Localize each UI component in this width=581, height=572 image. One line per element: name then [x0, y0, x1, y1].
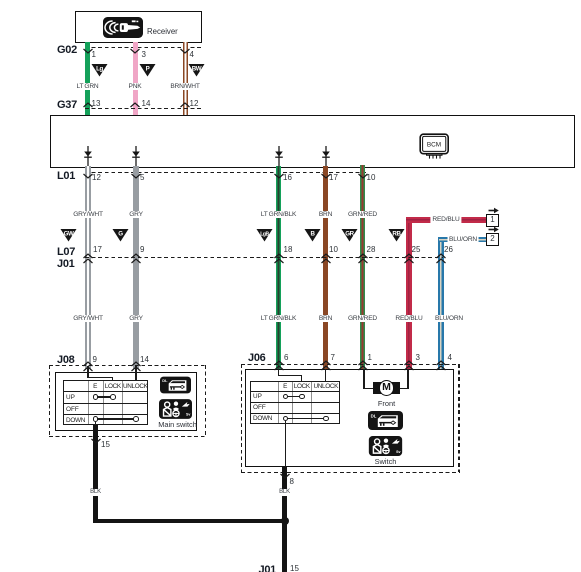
- J06 row label UP: [253, 393, 262, 400]
- wire code triangle G: [112, 228, 129, 242]
- door lock icon J06: [368, 411, 403, 430]
- wire GRY (L01-5 to J08-14): [133, 166, 139, 369]
- J08 DOWN contact UNLOCK circle: [133, 416, 139, 422]
- BCM module box: [50, 115, 575, 168]
- svg-text:Sv: Sv: [186, 412, 190, 416]
- L07 pin 17: [93, 246, 102, 255]
- G02 pin 3: [142, 51, 146, 60]
- wire code triangle Lg: [91, 63, 108, 77]
- svg-text:Sv: Sv: [396, 449, 400, 453]
- connector J01 label (pass-through): [57, 258, 74, 270]
- wire label LT GRN/BLK upper: [260, 211, 297, 218]
- wire code triangle GR: [341, 228, 358, 242]
- svg-text:LgB: LgB: [260, 232, 269, 238]
- L01 pin 12: [92, 174, 101, 183]
- L07 pin 10: [329, 246, 338, 255]
- J08 switch table frame: [63, 380, 148, 425]
- connector L01 dashed line: [85, 172, 368, 173]
- L07 pin 18: [284, 246, 293, 255]
- J08 pin 9: [93, 356, 97, 365]
- J08 table row lines: [64, 391, 147, 392]
- off-page terminal 2 arrow: [488, 226, 499, 233]
- wire label GRY lower: [128, 315, 144, 322]
- connector L07 label: [57, 246, 75, 258]
- J06 ground exit chevron: [280, 473, 290, 479]
- Front label: [378, 400, 395, 408]
- wire label BRN lower: [318, 315, 333, 322]
- connector J06 label: [248, 352, 265, 364]
- J06 entry chevrons: [274, 360, 284, 371]
- L07 pin 25: [412, 246, 421, 255]
- window motor feed line left (pin1): [363, 369, 364, 389]
- G02 pin 1: [92, 51, 96, 60]
- G37 pin 13: [92, 100, 101, 109]
- L07 pass-through chevrons: [83, 253, 93, 264]
- wire code triangle P: [139, 63, 156, 77]
- wire label LT GRN: [75, 83, 100, 90]
- connector L01 label: [57, 170, 75, 182]
- wire label LT GRN/BLK lower: [260, 315, 297, 322]
- off-page terminal 1 box: [486, 214, 499, 227]
- receiver key-fob icon: [103, 17, 143, 38]
- J06 output line from E column to pin 8: [285, 421, 286, 467]
- svg-text:G: G: [118, 231, 123, 238]
- J06 table row lines: [251, 391, 339, 392]
- wire code triangle GW: [60, 228, 77, 242]
- J08 DOWN contact line: [95, 418, 136, 419]
- J06 pin 6: [284, 354, 288, 363]
- G02 entry chevrons: [83, 48, 93, 54]
- front door switch dashed box J06: [241, 364, 459, 365]
- wire BLK from J06 pin8: [282, 467, 287, 572]
- Switch label: [375, 458, 397, 466]
- wire label BRN/WHT: [169, 83, 201, 90]
- J08 row label DOWN: [66, 417, 85, 424]
- wire BRN (L01-17 to J06-7): [323, 166, 328, 369]
- J06 table column lines: [278, 382, 279, 424]
- G37 pin 14: [142, 100, 151, 109]
- J08 table column lines: [88, 381, 89, 424]
- J06 row label DOWN: [253, 415, 272, 422]
- wire label BLK right: [278, 489, 291, 497]
- wire LT GRN (receiver pin1 to BCM): [85, 42, 90, 115]
- BCM internal driver diode 2: [131, 146, 141, 169]
- BCM internal driver diode 1: [83, 146, 93, 169]
- J08 ground exit chevron: [91, 438, 101, 444]
- J06 pin 1: [368, 354, 372, 363]
- wire label BRN upper: [318, 211, 333, 218]
- wire label PNK: [127, 83, 143, 90]
- BCM icon: [419, 133, 450, 160]
- J01 pin 15 label: [290, 565, 299, 572]
- J08 row label UP: [66, 394, 75, 401]
- svg-text:DL: DL: [162, 378, 168, 383]
- wire GRN/RED (L01-10 to J06-1): [360, 165, 365, 369]
- wire label GRY/WHT upper: [72, 211, 104, 218]
- L01 pin 17: [329, 174, 338, 183]
- off-page terminal 1 arrow: [488, 207, 499, 214]
- Main switch label: [158, 421, 197, 429]
- wire BLU/ORN horizontal to terminal 2: [439, 237, 487, 242]
- door lock icon J08: [160, 376, 191, 394]
- wire label GRY/WHT lower: [72, 315, 104, 322]
- J08 entry line pin9 to LOCK column: [87, 366, 88, 378]
- J08 table header UNLOCK: [123, 383, 148, 390]
- BCM internal driver diode 4: [321, 146, 331, 169]
- svg-text:BCM: BCM: [427, 142, 441, 149]
- J06 switch table frame: [250, 381, 340, 425]
- J06 UP contact E circle: [283, 394, 289, 400]
- wire RED/BLU vertical (to J06-3): [406, 217, 412, 369]
- window motor feed line right (pin3): [407, 369, 408, 389]
- wire label RED/BLU on horizontal: [430, 216, 461, 223]
- wire label BLU/ORN lower: [434, 315, 464, 322]
- J08 pin 15 label: [101, 441, 110, 450]
- J06 pin 8 label: [290, 478, 294, 487]
- wire BLK from J08 pin15: [93, 425, 98, 520]
- J06 DOWN contact UNLOCK circle: [323, 416, 329, 422]
- G37 entry chevrons: [83, 102, 93, 108]
- J08 output line from E column: [95, 422, 96, 426]
- wire label GRY upper: [128, 211, 144, 218]
- J06 pin 3: [416, 354, 420, 363]
- power window switch icon J06: [368, 436, 403, 456]
- J06 pin 7: [331, 354, 335, 363]
- Receiver label: [147, 28, 178, 37]
- J08 table header E: [93, 383, 97, 390]
- connector J08 label: [57, 354, 74, 366]
- J08 table header LOCK: [105, 383, 121, 390]
- L01 entry chevrons: [83, 173, 93, 179]
- J06 UP contact line: [285, 396, 302, 397]
- wire GRY/WHT (L01-12 to J08-9): [85, 166, 91, 369]
- wire BRN/WHT (receiver pin4 to BCM): [183, 42, 188, 115]
- connector G37 dashed line: [85, 108, 202, 109]
- L01 pin 16: [283, 174, 292, 183]
- J06 entry line pin7 to UNLOCK column: [325, 369, 326, 381]
- J06 row label OFF: [253, 404, 266, 411]
- main switch dashed box J08: [49, 365, 205, 366]
- J06 UP contact LOCK circle: [299, 394, 305, 400]
- J06 table header LOCK: [294, 383, 310, 390]
- connector G02 dashed line: [85, 47, 202, 48]
- connector L07/J01 dashed line: [85, 257, 443, 258]
- L01 pin 5: [140, 174, 144, 183]
- L07 pin 28: [367, 246, 376, 255]
- wire label RED/BLU lower: [394, 315, 423, 322]
- J08 DOWN contact E circle: [93, 416, 99, 422]
- window motor M (front): [373, 382, 400, 395]
- BCM internal driver diode 3: [274, 146, 284, 169]
- J06 DOWN contact E circle: [283, 416, 289, 422]
- J08 UP contact E circle: [93, 394, 99, 400]
- J08 entry chevrons: [83, 361, 93, 372]
- svg-text:GR: GR: [345, 231, 354, 238]
- G37 pin 12: [190, 100, 199, 109]
- wire label GRN/RED upper: [347, 211, 378, 218]
- svg-text:Lg: Lg: [96, 65, 103, 72]
- wire label GRN/RED lower: [347, 315, 378, 322]
- svg-text:RB: RB: [392, 231, 401, 238]
- wire code triangle B: [304, 228, 321, 242]
- power window main switch icon J08: [159, 399, 192, 419]
- connector G37 label: [57, 99, 77, 111]
- J08 UP contact LOCK circle: [110, 394, 116, 400]
- J06 table header E: [283, 383, 287, 390]
- G02 pin 4: [190, 51, 194, 60]
- front door switch solid box: [245, 369, 454, 468]
- ground bus junction dot: [281, 517, 289, 525]
- connector J01 label bottom: [259, 564, 276, 572]
- svg-text:BW: BW: [192, 65, 202, 72]
- wire code triangle BW: [188, 63, 205, 77]
- wire RED/BLU horizontal to terminal 1: [406, 217, 486, 223]
- svg-text:GW: GW: [63, 231, 73, 238]
- wire LT GRN/BLK (L01-16 to J06-6): [276, 166, 281, 369]
- wire label BLU/ORN on horizontal: [448, 236, 479, 243]
- J08 row label OFF: [66, 406, 79, 413]
- L01 pin 10: [367, 174, 376, 183]
- wire label BLK left: [89, 489, 102, 497]
- wire code triangle RB: [388, 228, 405, 242]
- keyless entry receiver box: [75, 11, 202, 43]
- wire PNK (receiver pin3 to BCM): [133, 42, 138, 115]
- svg-text:P: P: [146, 65, 150, 72]
- wire code triangle LgB: [256, 228, 273, 242]
- L07 pin 9: [140, 246, 144, 255]
- L07 pin 26: [444, 246, 453, 255]
- J06 pin 4: [448, 354, 452, 363]
- J08 pin 14: [140, 356, 149, 365]
- J06 DOWN contact line: [285, 418, 326, 419]
- BLK ground bus horizontal: [93, 519, 287, 524]
- J06 table header UNLOCK: [314, 383, 339, 390]
- wire BLU/ORN vertical (to J06-4): [438, 237, 444, 370]
- connector G02 label: [57, 44, 77, 56]
- off-page terminal 2 box: [486, 233, 499, 246]
- J08 UP contact line: [95, 396, 113, 397]
- J08 entry line pin14 to UNLOCK column: [135, 366, 136, 381]
- J06 entry line pin6 to LOCK column: [278, 369, 279, 376]
- svg-text:DL: DL: [371, 413, 377, 418]
- main switch solid box: [55, 372, 197, 431]
